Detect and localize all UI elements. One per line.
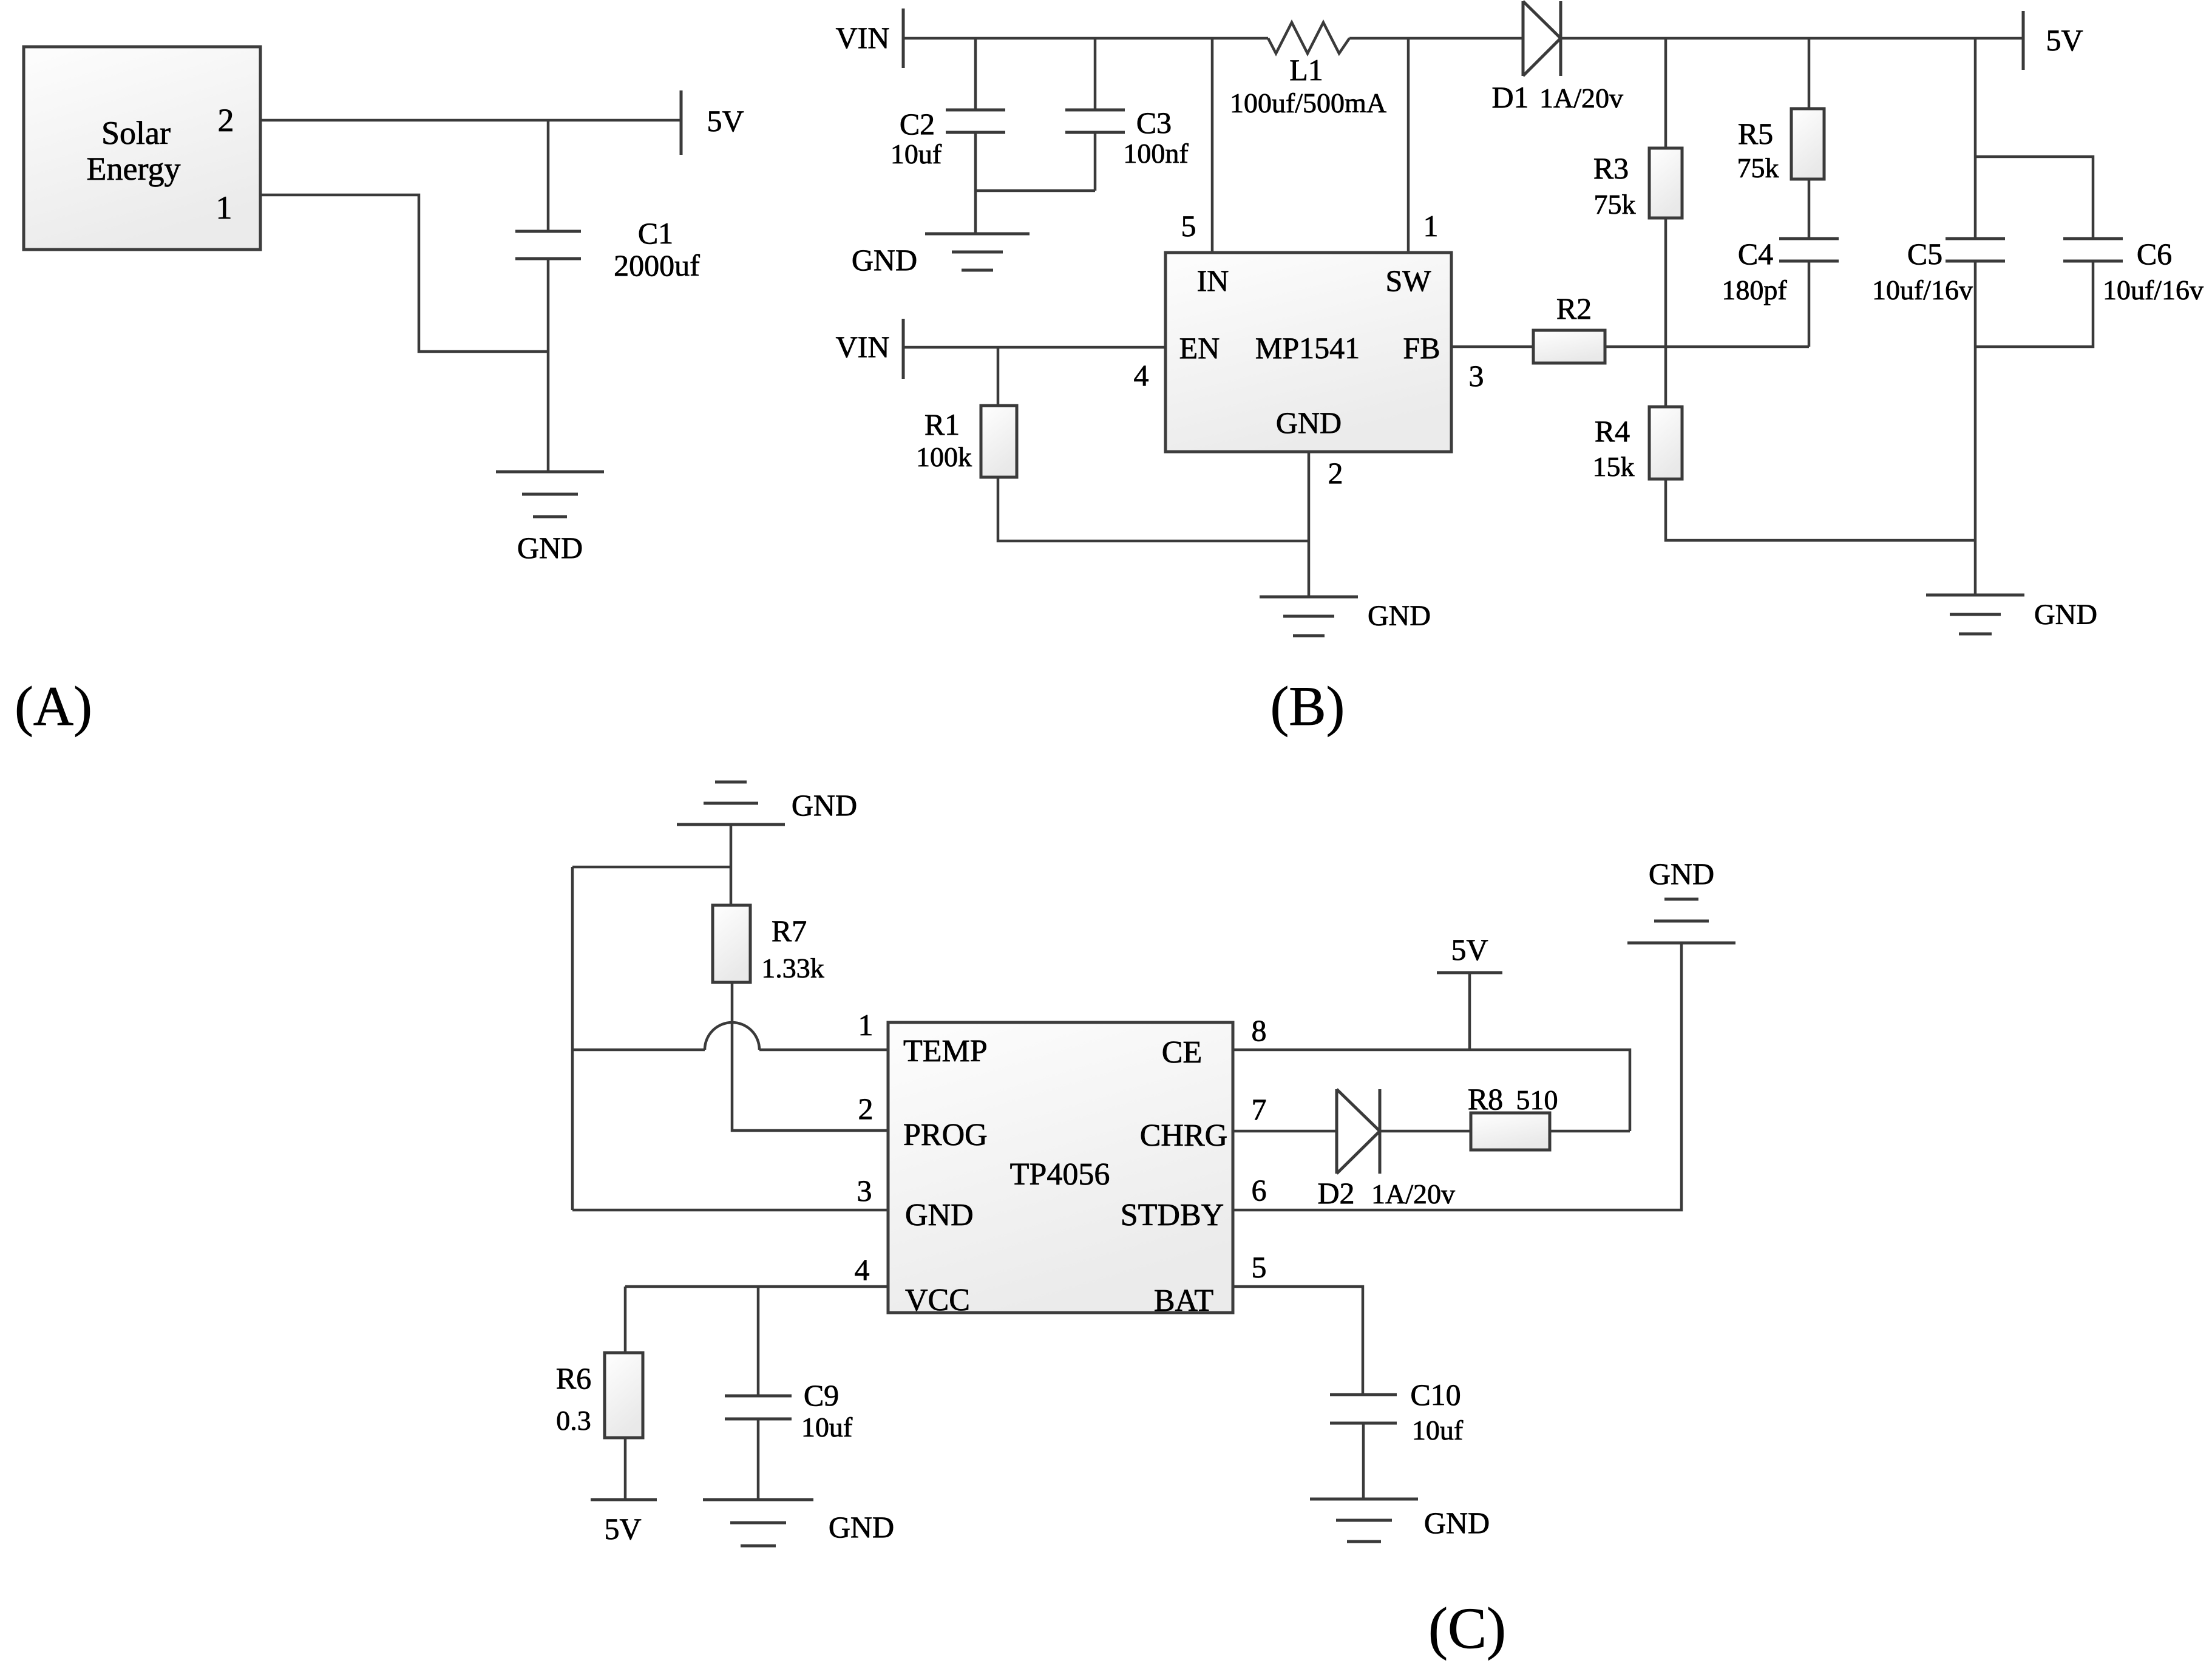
- wire node to C1 top: [547, 120, 550, 231]
- svg-text:L1: L1: [1289, 53, 1323, 87]
- wire CE to corner: [1233, 1050, 1630, 1131]
- resistor R1: [981, 406, 1017, 477]
- capacitor C1: [515, 231, 581, 259]
- wire VCC left: [625, 1285, 888, 1288]
- svg-text:3: 3: [1469, 359, 1484, 393]
- ground (C top): [677, 782, 785, 824]
- wire 5V stub (CE): [1468, 973, 1471, 1050]
- terminal 5V (A): [680, 90, 683, 155]
- wire C6 bottom: [1975, 261, 2093, 347]
- terminal 5V (R6): [591, 1498, 657, 1501]
- svg-text:VIN: VIN: [836, 21, 890, 55]
- resistor R4: [1649, 407, 1682, 479]
- svg-text:10uf/16v: 10uf/16v: [1872, 274, 1973, 305]
- ground (B right): [1926, 595, 2024, 634]
- wire TEMP left: [572, 1049, 705, 1052]
- svg-text:1A/20v: 1A/20v: [1539, 83, 1623, 114]
- svg-text:C4: C4: [1738, 237, 1773, 271]
- svg-text:Energy: Energy: [87, 151, 181, 187]
- svg-text:7: 7: [1252, 1092, 1267, 1126]
- svg-text:IN: IN: [1197, 263, 1229, 297]
- svg-text:SW: SW: [1386, 263, 1432, 297]
- wire pin1 drop: [1407, 38, 1410, 253]
- svg-text:GND: GND: [829, 1510, 894, 1544]
- op-amp U1 MP1541 box: [1165, 253, 1451, 452]
- svg-text:5V: 5V: [707, 104, 744, 138]
- terminal 5V (B): [2022, 11, 2025, 70]
- svg-text:2: 2: [218, 102, 234, 138]
- wire hop arc (TEMP over R7): [705, 1022, 759, 1050]
- svg-text:5: 5: [1181, 209, 1196, 243]
- svg-text:VIN: VIN: [836, 330, 890, 364]
- ground (C right): [1627, 899, 1735, 943]
- wire C2-C3 join: [975, 189, 1095, 192]
- svg-text:4: 4: [855, 1253, 870, 1287]
- resistor R6: [605, 1353, 643, 1438]
- capacitor C9: [725, 1396, 792, 1419]
- wire FB node to R4: [1664, 347, 1667, 407]
- wire TEMP right: [759, 1049, 888, 1052]
- svg-text:GND: GND: [2034, 599, 2097, 631]
- svg-text:GND: GND: [517, 531, 583, 565]
- resistor R2: [1533, 330, 1605, 363]
- capacitor C5: [1946, 239, 2005, 261]
- op-amp U2 TP4056 box: [888, 1022, 1233, 1313]
- svg-text:R6: R6: [556, 1361, 591, 1395]
- solar energy source block: [24, 47, 260, 250]
- svg-text:(A): (A): [15, 675, 92, 737]
- svg-text:STDBY: STDBY: [1121, 1198, 1224, 1232]
- svg-text:R3: R3: [1593, 151, 1629, 185]
- svg-text:100nf: 100nf: [1123, 138, 1189, 169]
- svg-text:100uf/500mA: 100uf/500mA: [1230, 87, 1386, 118]
- svg-text:D2: D2: [1317, 1176, 1354, 1210]
- svg-text:2: 2: [858, 1092, 874, 1126]
- svg-text:C2: C2: [900, 107, 935, 141]
- svg-text:GND: GND: [1649, 857, 1714, 891]
- wire C2 bottom to ground: [974, 132, 977, 234]
- svg-text:10uf: 10uf: [801, 1412, 853, 1443]
- svg-text:MP1541: MP1541: [1255, 331, 1360, 365]
- wire C4 to FB node: [1808, 261, 1811, 347]
- wire branch left top: [572, 866, 731, 869]
- svg-text:510: 510: [1516, 1084, 1558, 1115]
- svg-text:PROG: PROG: [903, 1118, 988, 1152]
- svg-text:D1: D1: [1491, 80, 1528, 114]
- svg-text:FB: FB: [1403, 331, 1440, 365]
- svg-text:100k: 100k: [916, 441, 972, 472]
- diode D1: [1523, 1, 1561, 76]
- svg-text:8: 8: [1252, 1013, 1267, 1047]
- resistor R8: [1471, 1113, 1550, 1150]
- wire L1 to D1: [1349, 37, 1523, 40]
- svg-text:R2: R2: [1556, 291, 1592, 325]
- svg-text:GND: GND: [905, 1198, 974, 1232]
- wire C5 drop: [1974, 38, 1977, 239]
- svg-text:5: 5: [1252, 1250, 1267, 1284]
- svg-text:TP4056: TP4056: [1010, 1157, 1110, 1192]
- svg-text:C3: C3: [1136, 106, 1172, 140]
- svg-text:6: 6: [1252, 1173, 1267, 1207]
- svg-text:10uf: 10uf: [1412, 1415, 1464, 1446]
- svg-text:R8: R8: [1468, 1082, 1503, 1116]
- svg-text:5V: 5V: [604, 1512, 641, 1546]
- svg-text:0.3: 0.3: [556, 1405, 591, 1436]
- svg-text:C1: C1: [638, 216, 673, 250]
- wire GND pin3: [572, 1209, 888, 1212]
- wire C9 to ground: [757, 1419, 760, 1500]
- wire R3 drop: [1664, 38, 1667, 148]
- capacitor C2: [946, 110, 1005, 132]
- svg-text:4: 4: [1134, 358, 1149, 392]
- wire R3 to FB node: [1664, 218, 1667, 347]
- wire pin5 drop: [1211, 38, 1214, 253]
- wire pin2 stub to ground: [1308, 452, 1311, 597]
- wire R6 to 5V: [624, 1438, 627, 1500]
- wire C3 drop: [1094, 38, 1097, 110]
- wire R5 drop: [1808, 38, 1811, 109]
- wire BAT to C10: [1233, 1287, 1363, 1395]
- svg-text:GND: GND: [1424, 1506, 1490, 1540]
- svg-text:C6: C6: [2137, 237, 2172, 271]
- svg-text:BAT: BAT: [1154, 1283, 1213, 1318]
- ground (C9): [703, 1500, 813, 1546]
- svg-text:1A/20v: 1A/20v: [1371, 1178, 1455, 1209]
- wire R6 drop: [624, 1287, 627, 1353]
- wire C10 to ground: [1362, 1423, 1365, 1499]
- svg-text:15k: 15k: [1593, 451, 1635, 482]
- wire C9 drop: [757, 1287, 760, 1396]
- terminal 5V (CE): [1437, 971, 1502, 974]
- svg-text:Solar: Solar: [101, 115, 171, 151]
- wire CHRG to D2: [1233, 1130, 1337, 1133]
- svg-text:C10: C10: [1410, 1378, 1461, 1412]
- svg-text:1: 1: [216, 189, 232, 226]
- wire R8 to corner: [1550, 1130, 1630, 1133]
- wire R5 to C4: [1808, 179, 1811, 239]
- wire FB to R2: [1451, 345, 1533, 348]
- wire R4 bottom run: [1666, 479, 1975, 540]
- svg-text:R1: R1: [924, 407, 960, 441]
- terminal VIN top: [902, 8, 905, 68]
- svg-text:10uf/16v: 10uf/16v: [2103, 274, 2204, 305]
- wire R2 to C4 node: [1605, 345, 1809, 348]
- svg-text:R7: R7: [772, 914, 807, 948]
- svg-text:3: 3: [857, 1174, 872, 1208]
- svg-text:75k: 75k: [1737, 152, 1779, 183]
- wire R1 bottom to pin2: [998, 477, 1309, 541]
- wire R7 to PROG: [732, 982, 888, 1130]
- svg-text:180pf: 180pf: [1722, 274, 1787, 305]
- svg-text:C5: C5: [1907, 237, 1942, 271]
- svg-text:10uf: 10uf: [891, 138, 942, 169]
- svg-text:CE: CE: [1162, 1035, 1202, 1070]
- wire solar pin2 to 5V: [260, 119, 681, 122]
- capacitor C3: [1065, 110, 1125, 132]
- svg-text:GND: GND: [1276, 406, 1342, 440]
- svg-text:R4: R4: [1595, 414, 1630, 448]
- wire VIN to EN: [903, 346, 1165, 349]
- ground (B left): [925, 234, 1030, 270]
- svg-text:C9: C9: [804, 1378, 839, 1412]
- svg-text:EN: EN: [1179, 331, 1220, 365]
- svg-text:1: 1: [858, 1008, 874, 1042]
- svg-text:CHRG: CHRG: [1140, 1118, 1227, 1153]
- ground (C10): [1310, 1499, 1418, 1542]
- resistor R5: [1791, 109, 1824, 179]
- wire C3 bottom: [1094, 132, 1097, 191]
- svg-text:2000uf: 2000uf: [614, 248, 700, 282]
- svg-text:5V: 5V: [2046, 23, 2083, 57]
- svg-text:(C): (C): [1428, 1596, 1506, 1661]
- wire solar pin1 bend: [260, 195, 548, 352]
- diode D2: [1337, 1089, 1380, 1174]
- wire D1 to 5V: [1561, 37, 2023, 40]
- wire gnd to R7: [730, 824, 733, 905]
- svg-text:75k: 75k: [1594, 189, 1636, 220]
- inductor L1: [1268, 22, 1349, 53]
- wire R1 drop: [997, 347, 1000, 406]
- wire C5 bottom to ground: [1974, 261, 1977, 595]
- resistor R7: [713, 905, 750, 982]
- svg-text:(B): (B): [1271, 675, 1345, 737]
- wire C6 branch top: [1975, 157, 2093, 239]
- svg-text:TEMP: TEMP: [903, 1034, 988, 1069]
- wire C1 to ground: [547, 259, 550, 472]
- capacitor C4: [1779, 239, 1839, 261]
- wire VIN to L1: [903, 37, 1268, 40]
- capacitor C6: [2063, 239, 2123, 261]
- ground (A): [496, 472, 604, 517]
- wire STDBY run: [1233, 943, 1681, 1210]
- svg-text:GND: GND: [1368, 600, 1431, 632]
- svg-text:GND: GND: [852, 243, 917, 277]
- svg-text:2: 2: [1328, 456, 1343, 490]
- wire D2 to R8: [1380, 1130, 1471, 1133]
- wire left vertical: [571, 867, 574, 1210]
- svg-text:1.33k: 1.33k: [761, 953, 824, 984]
- svg-text:GND: GND: [792, 788, 857, 822]
- ground (B mid): [1260, 597, 1358, 636]
- wire C2 drop: [974, 38, 977, 110]
- capacitor C10: [1330, 1395, 1397, 1423]
- svg-text:VCC: VCC: [905, 1283, 970, 1317]
- resistor R3: [1649, 148, 1682, 218]
- svg-text:5V: 5V: [1451, 933, 1488, 967]
- svg-text:1: 1: [1423, 209, 1439, 243]
- svg-text:R5: R5: [1738, 117, 1773, 151]
- terminal VIN bottom: [902, 319, 905, 379]
